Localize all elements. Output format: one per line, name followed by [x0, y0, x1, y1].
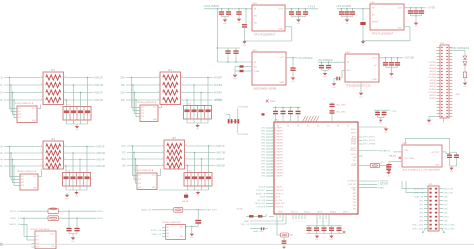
node label left USBDP8	[261, 170, 265, 172]
node label AVD6P	[214, 91, 223, 94]
wire SV1 shield	[452, 51, 465, 56]
svg-text:DM3: DM3	[261, 143, 265, 145]
U$1 left pin name 2	[276, 131, 283, 133]
SV1 net label +5V.PWR	[427, 92, 436, 94]
power ic U$5 box	[252, 52, 286, 85]
svg-text:USBDP2: USBDP2	[276, 134, 283, 136]
wire cap ground rail C	[66, 189, 87, 191]
capacitor C33	[375, 112, 380, 116]
resistor array R1 label	[168, 69, 172, 72]
svg-text:GP3: GP3	[419, 208, 423, 210]
U$1 bottom pin stub b5	[328, 214, 330, 219]
U$1 bottom pin num b1	[317, 221, 319, 223]
U$3 pin EN	[254, 16, 257, 18]
ground C1C2	[223, 19, 228, 25]
U$1 left pin name 7	[276, 146, 283, 148]
svg-text:TPS2051BDBVT,215: TPS2051BDBVT,215	[346, 86, 371, 88]
svg-text:IO1: IO1	[141, 107, 144, 109]
capacitor C41	[454, 155, 459, 159]
wire esd drop C pin3	[13, 160, 21, 183]
svg-text:4: 4	[272, 133, 273, 135]
SV1 pin pad R4	[446, 56, 448, 57]
svg-text:JP1: JP1	[429, 184, 434, 186]
node label BIAS wire	[253, 230, 264, 233]
node label AVD1M	[94, 84, 103, 87]
U$1 right pin name START	[351, 186, 357, 189]
U$1 right pin stub START	[358, 187, 377, 189]
node label AVD8M	[216, 164, 225, 167]
op-amp U$3 regulator box	[252, 5, 285, 31]
node label VBAT_OK	[151, 233, 161, 236]
junction C25	[328, 62, 329, 63]
junction A cap 1	[66, 99, 67, 100]
U$1 left pin stub 9	[266, 151, 274, 153]
svg-text:OUTPUT: OUTPUT	[431, 152, 439, 154]
capacitor C14 element 2	[192, 176, 197, 179]
ferrite FB2	[281, 233, 289, 237]
U$1 refdes	[275, 120, 280, 122]
U$5 refdes	[253, 50, 258, 52]
SV1 net label AVD1P	[430, 64, 436, 67]
svg-text:IO2: IO2	[36, 240, 39, 242]
svg-text:AVD4P: AVD4P	[96, 158, 105, 161]
wire XOSC	[394, 151, 403, 153]
U$1 right inner text GPIO5	[351, 142, 357, 144]
U$1 left pin num 4	[272, 136, 273, 138]
junction C40	[449, 153, 450, 154]
svg-text:IO1: IO1	[21, 176, 24, 178]
U$1 left pin stub 2	[266, 130, 274, 132]
capacitor C14 element 4	[206, 176, 211, 179]
svg-text:GND: GND	[196, 129, 200, 131]
svg-text:D8+: D8+	[122, 159, 127, 161]
wire output B2	[181, 84, 214, 86]
wire output C3	[64, 159, 96, 161]
junction C esd 4	[13, 165, 14, 166]
svg-text:GND: GND	[323, 77, 327, 79]
svg-text:GPIO5: GPIO5	[351, 142, 357, 144]
svg-text:AVD5P: AVD5P	[214, 76, 223, 79]
wire Cbot3 stubs	[323, 226, 325, 234]
capacitor Ctop1	[273, 111, 278, 115]
capacitor C16 element 3	[78, 110, 83, 113]
svg-text:U$5: U$5	[253, 50, 258, 52]
pin number R1 right 6	[182, 91, 183, 93]
svg-text:GND: GND	[153, 119, 158, 121]
node +3V3USBD label mid2	[237, 134, 249, 136]
U$1 left pin stub 7	[266, 145, 274, 147]
svg-text:2: 2	[272, 127, 273, 129]
svg-text:TPD4E USBDVR,A: TPD4E USBDVR,A	[137, 101, 157, 104]
JP1 arrow right	[442, 229, 445, 233]
wire output B3	[181, 92, 214, 94]
wire input D3	[127, 158, 164, 160]
svg-text:IO1: IO1	[138, 175, 141, 177]
esd ic TPD4E USBDVR,A box	[140, 105, 158, 122]
svg-text:GND: GND	[387, 173, 391, 175]
U$4 pin OUT	[398, 8, 403, 10]
svg-text:AVDD_PA: AVDD_PA	[444, 187, 454, 190]
svg-text:SUSP: SUSP	[260, 197, 266, 199]
svg-text:XRSIO: XRSIO	[343, 212, 349, 214]
SV1 pin stub L2	[437, 50, 440, 52]
node +3V3 label right	[391, 111, 397, 113]
ground C20C22	[414, 23, 419, 29]
esd ic TPD4E USBDVR,A vcc text	[33, 176, 38, 178]
junction A esd 3	[12, 92, 13, 93]
U$1 inner bottom text 5	[330, 211, 336, 214]
JP1 stub L2	[424, 192, 428, 194]
frame bottom line	[0, 243, 474, 245]
junction C3	[238, 8, 239, 9]
node PRIOR label	[381, 182, 389, 184]
wire C13 stub	[352, 9, 354, 17]
U$1 bl pin stubs	[277, 214, 286, 224]
capacitor C38	[282, 240, 287, 244]
SV1 pin stub L17	[437, 95, 440, 97]
SV1 pin stub L20	[437, 104, 440, 106]
junction A cap 3	[80, 92, 81, 93]
node label D6-	[121, 100, 125, 102]
wire C24 stub	[321, 62, 323, 70]
JP1 pad R5	[435, 204, 437, 206]
wire esd vcc A	[37, 105, 41, 109]
U$1 left pin stub 1	[266, 127, 274, 129]
svg-text:GND: GND	[359, 96, 363, 98]
U$1 inner bottom text 2	[291, 212, 298, 214]
ground C23	[291, 78, 296, 84]
node label D5-	[121, 85, 125, 87]
SV1 pin pad L13	[441, 83, 443, 84]
svg-text:PWRON: PWRON	[350, 150, 357, 152]
SV1 pin stub R1	[449, 47, 452, 49]
svg-text:AVD2M: AVD2M	[429, 73, 436, 76]
svg-text:D4+: D4+	[0, 159, 4, 161]
resistor R7	[240, 70, 244, 72]
pin number R1 right 5	[182, 98, 183, 100]
svg-text:DM2: DM2	[261, 137, 265, 139]
pin number R4 right 5	[65, 164, 66, 166]
wire U$3 gnd loop	[245, 27, 292, 41]
capacitor C27	[383, 62, 388, 66]
svg-text:IN: IN	[254, 62, 257, 64]
node label bl2	[241, 224, 250, 226]
wire esd vcc D	[157, 169, 161, 176]
SV1 pin pad R7	[446, 65, 448, 66]
pin number R4 left 4	[41, 164, 42, 166]
svg-text:VCC: VCC	[33, 176, 38, 178]
U$1 bottom pin num a5	[305, 221, 307, 223]
JP1 refdes	[429, 184, 434, 186]
wire esd drop A pin2	[11, 85, 17, 112]
wire spk1p a	[20, 217, 48, 219]
JP1 stub R7	[439, 212, 443, 214]
U$7 pin VDD	[405, 150, 410, 152]
SV1 pin stub L8	[437, 68, 440, 70]
svg-text:USBDP0: USBDP0	[276, 176, 283, 178]
SV1 pin pad R6	[446, 62, 448, 63]
node +3V3 label mid	[215, 99, 222, 102]
svg-text:TPS7A1033DBVT: TPS7A1033DBVT	[372, 33, 394, 36]
wire spk cap drop1	[68, 211, 70, 227]
wire cap gnd stub B	[197, 123, 199, 125]
JP1 pad L5	[429, 204, 431, 206]
node label PWRON	[378, 150, 386, 152]
SV1 pin pad R3	[446, 53, 448, 54]
wire R6R7 join	[235, 67, 240, 75]
node +5V.PWRED label	[298, 58, 313, 60]
SV1 pin stub R2	[449, 50, 452, 52]
svg-text:9: 9	[272, 148, 273, 150]
wire C1C2 bottom rail	[222, 17, 229, 19]
wire U$4 gnd loop	[363, 27, 410, 41]
svg-text:USBDP3: USBDP3	[276, 140, 283, 142]
SV1 pin pad L19	[441, 101, 443, 102]
U$1 left pin stub 13	[266, 163, 274, 165]
svg-text:GND: GND	[379, 122, 383, 124]
node label JP1 L SPK2_GND	[412, 228, 424, 230]
svg-text:U$2: U$2	[346, 52, 351, 54]
node label left SUSP	[260, 197, 266, 199]
SV1 pin pad R11	[446, 77, 448, 78]
JP1 pad R10	[435, 224, 437, 226]
svg-text:USBDM7: USBDM7	[276, 167, 283, 169]
JP1 pad L7	[429, 212, 431, 214]
junction C24	[321, 62, 322, 63]
wire input A4	[4, 99, 43, 101]
wire Cbot4 stubs	[331, 226, 333, 234]
U$1 bottom pin stub a4	[301, 214, 303, 219]
node label AVD7M	[216, 151, 225, 154]
node label JP1 L SPK1_GND	[412, 224, 424, 226]
SV1 pin stub L18	[437, 98, 440, 100]
wire C21 stub	[415, 8, 417, 16]
node label left USBDM2	[261, 137, 265, 139]
svg-text:XTALOUT: XTALOUT	[256, 189, 265, 192]
U$1 bottom pin num a2	[296, 221, 298, 223]
capacitor C43	[74, 228, 79, 232]
svg-text:R9,1K: R9,1K	[183, 201, 189, 203]
ground C24C25	[323, 73, 328, 79]
JP1 stub L4	[424, 200, 428, 202]
svg-text:OVRCUR: OVRCUR	[257, 207, 266, 209]
oscillator U$7 box	[402, 145, 442, 167]
junction A esd 2	[10, 84, 11, 85]
node label BIAS_OK	[141, 209, 152, 212]
svg-text:IO4: IO4	[18, 117, 21, 119]
wire C3 stub	[238, 9, 240, 19]
U$1 left pin stub 12	[266, 160, 274, 162]
wire esd drop D pin4	[136, 166, 138, 188]
SV1 pin pad R10	[446, 74, 448, 75]
junction A esd 4	[13, 99, 14, 100]
svg-text:IO2: IO2	[141, 110, 144, 112]
U$1 left pin name b6	[276, 203, 285, 205]
svg-text:31: 31	[296, 221, 298, 223]
svg-text:GP4: GP4	[419, 212, 423, 214]
SV1 pin pad R22	[446, 110, 448, 111]
esd pin name IO1	[21, 176, 24, 178]
wire U$7 vdd rail	[406, 137, 450, 139]
U$1 right pin name X_MP_INT	[348, 184, 357, 186]
U$8 gnd text	[180, 236, 183, 238]
ground C30	[386, 172, 391, 178]
node label AVD6M	[214, 99, 223, 102]
SV1 pin stub L12	[437, 80, 440, 82]
JP1 pad L3	[429, 196, 431, 198]
SV1 pin pad L3	[441, 53, 443, 54]
U$1 left pin stub 6	[266, 142, 274, 144]
SV1 net label AVD3P	[430, 79, 436, 82]
U$2 pin IN	[347, 62, 350, 64]
svg-text:FLAG: FLAG	[254, 70, 260, 73]
U$1 inner top text 7	[337, 125, 339, 127]
U$9 gnd text	[52, 246, 54, 248]
svg-text:D3-: D3-	[0, 153, 4, 155]
SV1 pin stub L15	[437, 89, 440, 91]
wire +3V3USBD rail	[337, 8, 370, 10]
U$3 pin IN	[254, 9, 257, 11]
svg-text:GND: GND	[190, 237, 194, 239]
SV1 net label AVD5M	[429, 97, 436, 100]
node label left USBDP7	[261, 164, 265, 166]
pin number R4 left 3	[41, 158, 42, 160]
svg-text:12: 12	[271, 157, 273, 159]
wire EN drop U$3	[245, 9, 247, 24]
resistor array R2 label	[172, 137, 176, 140]
svg-text:C12: C12	[187, 104, 191, 106]
U$1 left pin num 6	[272, 142, 273, 144]
svg-text:U$3: U$3	[253, 3, 258, 5]
junction C28	[391, 57, 392, 58]
pin number R3 right 7	[65, 83, 66, 85]
svg-text:+5V.PWRED: +5V.PWRED	[318, 60, 333, 62]
JP1 pad R3	[435, 196, 437, 198]
U$5 pin OUT	[280, 57, 285, 59]
capacitor C31	[330, 104, 335, 108]
svg-text:D6-: D6-	[121, 100, 125, 102]
esd ic U$9 box	[35, 231, 56, 249]
wire input D4	[127, 165, 164, 167]
svg-text:USBDP6: USBDP6	[276, 158, 283, 160]
svg-text:GND: GND	[237, 22, 241, 24]
junction A esd 1	[9, 77, 10, 78]
U$9 pin name 4	[36, 247, 39, 249]
svg-text:DM1: DM1	[261, 131, 265, 133]
U$1 left pin name 5	[276, 140, 283, 142]
wire C9 stub	[305, 9, 307, 17]
svg-text:+3V3: +3V3	[308, 5, 316, 9]
node label JP1 L GP1	[419, 200, 423, 202]
U$1 right pin name A_PWRON	[348, 180, 357, 183]
capacitor C30	[386, 166, 391, 170]
SV1 pin stub R18	[449, 98, 452, 100]
svg-text:VBUS_DET: VBUS_DET	[255, 203, 266, 205]
junction C5	[227, 61, 228, 62]
SV1 pin stub R13	[449, 83, 452, 85]
svg-text:U$1_GND: U$1_GND	[336, 111, 346, 113]
esd pin name IO3	[138, 183, 141, 185]
SV1 pin stub R15	[449, 89, 452, 91]
ground U$2	[359, 93, 364, 99]
junction D cap 4	[208, 145, 209, 146]
pin number R3 left 4	[41, 98, 42, 100]
wire R8 to gnd	[464, 78, 466, 83]
U$1 right inner text b PG3	[353, 196, 357, 198]
U$1 bottom pin stub a3	[298, 214, 300, 219]
U$1 left pin name 13	[276, 164, 283, 166]
svg-text:PG6: PG6	[353, 205, 357, 207]
svg-text:VB: VB	[337, 125, 339, 127]
U$4 pin EN	[372, 15, 375, 17]
junction R5	[362, 8, 363, 9]
SV1 pin pad R8	[446, 68, 448, 69]
U$1 left pin name b5	[276, 200, 283, 202]
svg-text:AUD1_M: AUD1_M	[10, 223, 20, 226]
svg-text:X_MP_INT: X_MP_INT	[348, 184, 357, 186]
SV1 net label AVD4P	[430, 85, 436, 88]
U$1 left pin stub b7	[266, 206, 274, 208]
SV1 pin stub L19	[437, 101, 440, 103]
svg-text:RBIAS1: RBIAS1	[330, 211, 336, 214]
wire output C2	[64, 152, 96, 154]
wire output B1	[181, 77, 214, 79]
capacitor C36	[234, 119, 239, 123]
capacitor Ctop2	[281, 111, 286, 115]
wire esd drop C pin1	[10, 147, 21, 177]
capacitor Cbot1	[307, 227, 312, 231]
svg-text:USB.HARNESS: USB.HARNESS	[451, 47, 470, 50]
svg-text:+3V3USBD: +3V3USBD	[237, 107, 249, 109]
pin number R3 right 6	[65, 91, 66, 93]
SV1 pin stub L21	[437, 107, 440, 109]
SV1 pin stub L9	[437, 71, 440, 73]
svg-text:13: 13	[271, 160, 273, 162]
node label AVD1P	[94, 76, 103, 79]
node label D1+	[0, 77, 4, 79]
ground bottom caps 2	[329, 236, 334, 242]
U$2 refdes	[346, 52, 351, 54]
svg-text:GPIO7: GPIO7	[351, 148, 357, 150]
wire SV1 gnd left	[429, 117, 437, 120]
svg-text:VBAT: VBAT	[244, 220, 250, 223]
svg-text:VCC: VCC	[50, 234, 55, 236]
svg-text:DP7: DP7	[261, 164, 265, 166]
wire R5 bottom	[362, 25, 364, 41]
junction C1	[221, 8, 222, 9]
U$7 value label	[403, 168, 440, 171]
SV1 pin pad L17	[441, 95, 443, 96]
SV1 net label AVD1M	[429, 67, 436, 70]
U$1 left pin num 9	[271, 151, 273, 153]
JP1 stub R8	[439, 216, 443, 218]
svg-text:GND: GND	[463, 86, 467, 88]
capacitor C34	[382, 112, 387, 116]
junction B cap 2	[193, 84, 194, 85]
wire U$5 flag	[244, 70, 253, 72]
esd pin name IO1	[141, 107, 144, 109]
capacitor C18 element 4	[84, 176, 89, 179]
ground C39	[387, 170, 392, 176]
svg-text:USBDP5: USBDP5	[276, 152, 283, 154]
node label JP1 R GP9	[444, 212, 448, 214]
wire input A3	[4, 92, 43, 94]
node label AVD5M	[214, 84, 223, 87]
svg-text:GPIO_MTMS: GPIO_MTMS	[363, 144, 376, 146]
capacitor array C18 label	[66, 171, 70, 173]
wire C5C6 top rail	[217, 47, 240, 49]
U$1 right inner text b PG5	[353, 202, 357, 204]
